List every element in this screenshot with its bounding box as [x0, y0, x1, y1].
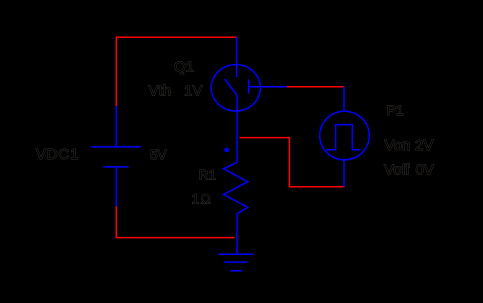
svg-text:1V: 1V	[184, 83, 202, 100]
svg-text:Von: Von	[385, 137, 411, 154]
svg-text:0V: 0V	[416, 162, 434, 179]
svg-text:Q1: Q1	[174, 59, 194, 76]
ground	[218, 254, 254, 271]
svg-text:Voff: Voff	[384, 162, 410, 179]
battery VDC1	[91, 106, 141, 207]
svg-text:P1: P1	[387, 102, 404, 118]
wire	[116, 207, 234, 238]
wire	[240, 138, 345, 187]
pulse source P1	[320, 87, 370, 187]
svg-text:1Ω: 1Ω	[192, 192, 213, 207]
switch Q1	[211, 37, 287, 162]
resistor R1	[224, 162, 248, 254]
svg-text:R1: R1	[199, 168, 216, 183]
svg-text:5V: 5V	[150, 148, 167, 163]
svg-text:2V: 2V	[415, 137, 433, 154]
svg-text:Vth: Vth	[149, 83, 172, 100]
wire	[287, 86, 344, 88]
wire	[116, 37, 236, 106]
node dot	[224, 148, 229, 153]
svg-text:VDC1: VDC1	[36, 146, 79, 163]
